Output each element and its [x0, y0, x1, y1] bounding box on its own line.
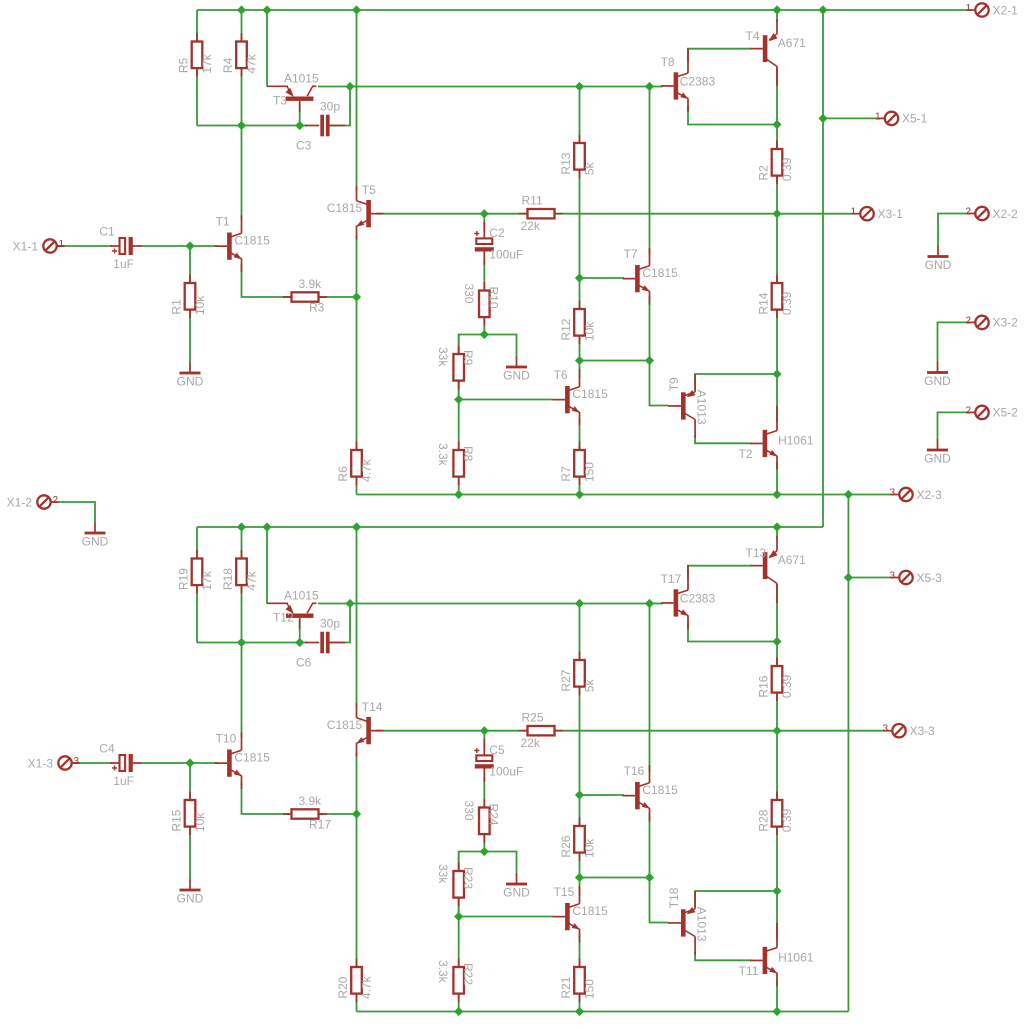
wire	[580, 277, 625, 279]
wire	[695, 435, 752, 443]
junction	[772, 120, 781, 129]
capacitor C4 1uF	[99, 742, 141, 789]
transistor T12 A1015	[267, 588, 319, 629]
svg-text:0.39: 0.39	[780, 291, 794, 315]
svg-text:C3: C3	[296, 139, 312, 153]
junction	[575, 356, 584, 365]
svg-text:47k: 47k	[245, 53, 259, 73]
svg-text:100uF: 100uF	[489, 248, 523, 262]
svg-text:C1815: C1815	[234, 751, 270, 765]
svg-text:X5-2: X5-2	[993, 406, 1019, 420]
junction	[237, 522, 246, 531]
svg-text:C1815: C1815	[327, 718, 363, 732]
wire	[197, 125, 307, 127]
resistor R22 3.3k	[436, 959, 475, 1003]
svg-text:33k: 33k	[436, 347, 450, 367]
svg-text:X1-2: X1-2	[7, 495, 33, 509]
connector X2-2 pin 2	[965, 207, 1018, 221]
wire	[196, 527, 198, 643]
transistor T11 H1061	[739, 923, 814, 987]
capacitor C3 30p	[296, 100, 345, 153]
svg-text:C1815: C1815	[642, 783, 678, 797]
junction	[295, 638, 304, 647]
wire V+ feed	[822, 10, 824, 527]
svg-text:2: 2	[965, 207, 971, 218]
svg-text:A1013: A1013	[695, 390, 709, 425]
wire	[266, 10, 268, 87]
svg-text:150: 150	[583, 979, 597, 999]
svg-text:T10: T10	[216, 732, 237, 746]
junction	[844, 490, 853, 499]
wire	[484, 852, 516, 875]
resistor R16 0.39	[757, 658, 795, 702]
junction	[575, 273, 584, 282]
wire	[649, 297, 651, 361]
svg-text:C1815: C1815	[642, 266, 678, 280]
connector X5-2 pin 2	[965, 405, 1018, 419]
junction	[772, 369, 781, 378]
wire	[580, 794, 625, 796]
wire	[483, 214, 485, 231]
wire V- rail	[357, 1011, 849, 1013]
transistor T15 C1815	[553, 885, 608, 943]
svg-text:3: 3	[889, 488, 895, 499]
junction	[480, 330, 489, 339]
resistor R3 3.9k	[283, 277, 327, 315]
resistor R10 330	[462, 282, 501, 326]
junction	[480, 209, 489, 218]
junction	[772, 637, 781, 646]
svg-text:R28: R28	[757, 809, 771, 831]
resistor R13 5k	[559, 135, 597, 179]
svg-text:C4: C4	[99, 742, 115, 756]
resistor R8 3.3k	[436, 442, 475, 486]
svg-text:R22: R22	[461, 963, 475, 985]
wire	[688, 49, 752, 62]
wire	[776, 10, 778, 22]
wire	[196, 10, 198, 126]
resistor R27 5k	[559, 652, 597, 696]
resistor R6 4.7k	[336, 442, 374, 486]
svg-text:10k: 10k	[193, 295, 207, 315]
svg-text:R8: R8	[461, 446, 475, 462]
junction	[345, 82, 354, 91]
capacitor C1 1uF	[99, 225, 141, 272]
svg-text:X1-1: X1-1	[13, 239, 39, 253]
svg-text:0.39: 0.39	[780, 808, 794, 832]
ground GND (X3-2)	[924, 362, 951, 388]
svg-text:R11: R11	[522, 194, 543, 208]
wire	[299, 103, 301, 126]
wire	[695, 374, 777, 390]
svg-text:30p: 30p	[320, 100, 340, 114]
wire	[650, 361, 669, 406]
svg-text:4.7k: 4.7k	[360, 975, 374, 999]
capacitor C5 100uF	[474, 739, 523, 782]
transistor T6 C1815	[553, 368, 608, 426]
svg-text:2: 2	[53, 495, 59, 506]
wire	[688, 106, 777, 125]
wire	[189, 763, 191, 881]
svg-text:C1815: C1815	[572, 904, 608, 918]
junction	[575, 873, 584, 882]
svg-text:1: 1	[875, 111, 881, 122]
svg-text:30p: 30p	[320, 617, 340, 631]
wire to X5-1	[823, 117, 877, 119]
svg-text:GND: GND	[924, 452, 951, 466]
svg-text:22k: 22k	[521, 219, 541, 233]
svg-text:3.3k: 3.3k	[436, 443, 450, 467]
wire	[579, 604, 581, 896]
svg-text:A671: A671	[778, 553, 806, 567]
svg-text:2: 2	[965, 315, 971, 326]
ground GND (R1)	[177, 363, 204, 389]
transistor T18 A1013	[667, 887, 709, 954]
wire output OUT1	[376, 213, 854, 215]
svg-text:17k: 17k	[200, 570, 214, 590]
wire	[329, 604, 350, 643]
resistor R20 4.7k	[336, 959, 374, 1003]
svg-text:R14: R14	[757, 292, 771, 314]
svg-text:1uF: 1uF	[113, 257, 134, 271]
wire	[776, 463, 778, 495]
svg-text:R2: R2	[757, 165, 771, 181]
connector X3-1 pin 1	[850, 207, 903, 221]
wire	[140, 762, 218, 764]
svg-text:R27: R27	[559, 669, 573, 691]
wire	[242, 265, 357, 298]
svg-text:22k: 22k	[521, 736, 541, 750]
wire	[579, 418, 581, 495]
svg-text:H1061: H1061	[778, 433, 814, 447]
svg-text:R1: R1	[170, 299, 184, 315]
wire	[356, 527, 358, 707]
svg-text:T5: T5	[362, 183, 376, 197]
wire	[484, 335, 516, 358]
wire	[649, 87, 651, 256]
junction	[454, 490, 463, 499]
transistor T16 C1815	[623, 764, 678, 822]
wire	[776, 68, 778, 423]
wire to X5-3	[848, 577, 892, 579]
wire	[650, 878, 669, 923]
svg-text:33k: 33k	[436, 864, 450, 884]
transistor T8 C2383	[661, 48, 716, 112]
svg-text:17k: 17k	[200, 53, 214, 73]
wire	[579, 935, 581, 1012]
wire	[483, 260, 485, 335]
junction	[185, 758, 194, 767]
svg-text:X5-3: X5-3	[917, 571, 943, 585]
resistor R18 47k	[221, 550, 259, 594]
wire X1-2 to GND	[58, 502, 95, 523]
transistor T17 C2383	[661, 565, 716, 629]
wire X3-2 to GND	[938, 322, 968, 362]
wire V- rail	[357, 494, 892, 496]
connector X3-3 pin 3	[882, 724, 935, 738]
wire	[695, 891, 777, 907]
wire	[483, 731, 485, 748]
transistor T14 C1815	[327, 700, 384, 757]
svg-text:C2383: C2383	[680, 74, 716, 88]
svg-text:R16: R16	[757, 675, 771, 697]
svg-text:A1015: A1015	[284, 588, 319, 602]
resistor R9 33k	[436, 346, 475, 390]
svg-text:A1013: A1013	[695, 907, 709, 942]
svg-text:GND: GND	[924, 374, 951, 388]
capacitor C6 30p	[296, 617, 345, 670]
wire	[459, 852, 485, 917]
svg-text:A671: A671	[778, 36, 806, 50]
svg-text:330: 330	[462, 284, 476, 304]
svg-text:T12: T12	[273, 610, 294, 624]
svg-text:GND: GND	[177, 375, 204, 389]
junction	[454, 395, 463, 404]
junction	[480, 847, 489, 856]
resistor R17 3.9k	[283, 794, 331, 832]
transistor T1 C1815	[215, 215, 270, 273]
svg-text:R6: R6	[336, 466, 350, 482]
svg-text:2: 2	[965, 405, 971, 416]
wire	[776, 527, 778, 539]
wire	[458, 335, 460, 495]
svg-text:X2-3: X2-3	[917, 488, 943, 502]
junction	[352, 809, 361, 818]
wire	[318, 86, 663, 88]
svg-text:R10: R10	[487, 287, 501, 309]
junction	[352, 292, 361, 301]
wire	[241, 126, 243, 221]
svg-text:T9: T9	[667, 377, 681, 391]
svg-text:C2: C2	[489, 226, 505, 240]
resistor R26 10k	[559, 818, 597, 862]
svg-text:T6: T6	[554, 368, 568, 382]
connector X1-3 pin 3	[28, 756, 80, 770]
wire	[189, 246, 191, 364]
svg-text:1: 1	[850, 207, 856, 218]
svg-text:C1815: C1815	[572, 387, 608, 401]
wire	[483, 777, 485, 852]
svg-text:T8: T8	[661, 55, 675, 69]
wire	[776, 585, 778, 940]
svg-text:5k: 5k	[583, 678, 597, 692]
svg-text:R4: R4	[221, 57, 235, 73]
svg-text:A1015: A1015	[284, 71, 319, 85]
svg-text:T15: T15	[554, 885, 575, 899]
resistor R12 10k	[559, 301, 597, 345]
wire	[459, 335, 485, 400]
svg-text:1: 1	[965, 3, 971, 14]
svg-text:T17: T17	[661, 572, 682, 586]
svg-text:1: 1	[59, 239, 65, 250]
connector X2-1 pin 1	[965, 3, 1018, 17]
svg-text:GND: GND	[925, 258, 952, 272]
svg-text:1uF: 1uF	[113, 774, 134, 788]
svg-text:4.7k: 4.7k	[360, 458, 374, 482]
resistor R19 17k	[177, 550, 215, 594]
transistor T3 A1015	[267, 71, 319, 112]
ground GND (R23)	[503, 874, 530, 900]
svg-text:X5-1: X5-1	[902, 112, 928, 126]
junction	[818, 5, 827, 14]
junction	[262, 522, 271, 531]
svg-text:X3-3: X3-3	[910, 724, 936, 738]
wire	[241, 643, 243, 738]
wire	[580, 877, 650, 879]
svg-text:T16: T16	[624, 764, 645, 778]
junction	[345, 599, 354, 608]
svg-text:3.9k: 3.9k	[299, 794, 323, 808]
connector X5-3 pin 3	[889, 571, 942, 585]
wire	[356, 236, 358, 495]
svg-text:C6: C6	[296, 656, 312, 670]
resistor R21 150	[559, 959, 597, 1003]
junction	[818, 114, 827, 123]
junction	[454, 1007, 463, 1016]
connector X1-1 pin 1	[13, 239, 65, 253]
junction	[772, 1007, 781, 1016]
svg-text:3: 3	[74, 756, 80, 767]
svg-text:C1: C1	[99, 225, 115, 239]
ground GND (X1-2)	[82, 523, 109, 549]
ground GND (R15)	[177, 880, 204, 906]
svg-text:R18: R18	[221, 568, 235, 590]
resistor R24 330	[462, 799, 501, 843]
svg-text:0.39: 0.39	[780, 674, 794, 698]
connector X5-1 pin 1	[875, 111, 928, 125]
junction	[772, 726, 781, 735]
svg-text:C1815: C1815	[234, 234, 270, 248]
svg-text:T2: T2	[739, 447, 753, 461]
wire	[329, 87, 350, 126]
svg-text:X1-3: X1-3	[28, 756, 54, 770]
wire output OUT2	[376, 730, 885, 732]
wire	[695, 952, 752, 960]
wire	[688, 566, 752, 579]
svg-text:5k: 5k	[583, 161, 597, 175]
svg-text:GND: GND	[82, 535, 109, 549]
wire	[459, 399, 553, 401]
svg-text:GND: GND	[503, 886, 530, 900]
junction	[575, 1007, 584, 1016]
svg-text:R17: R17	[309, 818, 331, 832]
junction	[645, 873, 654, 882]
svg-text:R24: R24	[487, 804, 501, 826]
ground GND (R9)	[503, 357, 530, 383]
svg-text:T3: T3	[273, 93, 287, 107]
svg-text:R5: R5	[177, 57, 191, 73]
wire	[242, 782, 357, 815]
resistor R11 22k	[519, 194, 563, 234]
svg-text:330: 330	[462, 801, 476, 821]
resistor R5 17k	[177, 33, 215, 77]
wire X5-2 to GND	[938, 412, 968, 440]
junction	[575, 490, 584, 499]
svg-text:R12: R12	[559, 318, 573, 340]
transistor T4 A671	[746, 19, 807, 86]
wire	[140, 245, 218, 247]
svg-text:3.9k: 3.9k	[299, 277, 323, 291]
svg-text:3.3k: 3.3k	[436, 960, 450, 984]
connector X2-3 pin 3	[889, 488, 942, 502]
svg-text:10k: 10k	[583, 838, 597, 858]
junction	[352, 5, 361, 14]
svg-text:T7: T7	[624, 247, 638, 261]
svg-text:R23: R23	[461, 867, 475, 889]
wire V+ rail	[197, 9, 968, 11]
ground GND (X5-2)	[924, 440, 951, 466]
wire	[197, 526, 823, 528]
svg-text:X2-2: X2-2	[993, 207, 1019, 221]
wire	[318, 603, 663, 605]
svg-text:C5: C5	[489, 743, 505, 757]
junction	[772, 522, 781, 531]
junction	[237, 638, 246, 647]
wire	[241, 527, 243, 643]
resistor R2 0.39	[757, 141, 795, 185]
resistor R14 0.39	[757, 275, 795, 319]
transistor T9 A1013	[667, 374, 709, 438]
svg-text:R19: R19	[177, 568, 191, 590]
transistor T13 A671	[746, 536, 807, 603]
svg-text:R26: R26	[559, 835, 573, 857]
transistor T7 C1815	[623, 247, 678, 305]
transistor T10 C1815	[215, 732, 270, 790]
svg-text:T4: T4	[746, 29, 760, 43]
svg-text:10k: 10k	[583, 321, 597, 341]
junction	[645, 599, 654, 608]
svg-text:R25: R25	[522, 711, 544, 725]
junction	[237, 5, 246, 14]
svg-text:T1: T1	[216, 215, 230, 229]
junction	[575, 790, 584, 799]
resistor R23 33k	[436, 863, 475, 907]
junction	[645, 356, 654, 365]
junction	[575, 82, 584, 91]
svg-text:T14: T14	[362, 700, 383, 714]
junction	[454, 912, 463, 921]
svg-text:R20: R20	[336, 976, 350, 998]
junction	[772, 209, 781, 218]
connector X3-2 pin 2	[965, 315, 1018, 329]
svg-text:100uF: 100uF	[489, 765, 523, 779]
svg-text:R15: R15	[170, 809, 184, 831]
junction	[772, 886, 781, 895]
svg-text:T13: T13	[746, 546, 767, 560]
resistor R25 22k	[519, 711, 563, 751]
wire	[579, 87, 581, 379]
svg-text:X2-1: X2-1	[993, 3, 1019, 17]
svg-text:H1061: H1061	[778, 950, 814, 964]
svg-text:GND: GND	[177, 892, 204, 906]
svg-text:150: 150	[583, 462, 597, 482]
junction	[295, 121, 304, 130]
wire	[356, 753, 358, 1012]
junction	[575, 599, 584, 608]
junction	[185, 241, 194, 250]
wire	[266, 527, 268, 604]
junction	[352, 522, 361, 531]
svg-text:47k: 47k	[245, 570, 259, 590]
svg-text:R9: R9	[461, 350, 475, 366]
ground GND (X2-2)	[925, 246, 952, 272]
wire	[57, 245, 112, 247]
wire X2-2 to GND	[938, 214, 968, 247]
svg-text:T18: T18	[667, 887, 681, 908]
svg-text:T11: T11	[739, 964, 759, 978]
wire	[688, 623, 777, 642]
wire	[299, 620, 301, 643]
